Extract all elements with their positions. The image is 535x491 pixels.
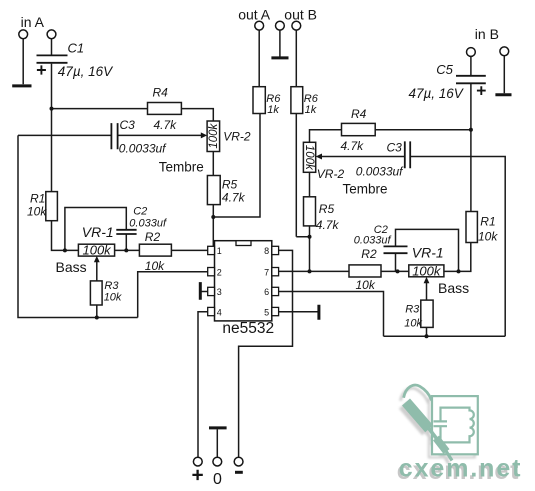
svg-text:Tembre: Tembre <box>159 160 204 175</box>
svg-text:0.0033uf: 0.0033uf <box>119 142 167 156</box>
svg-text:R2: R2 <box>145 230 161 244</box>
svg-text:100k: 100k <box>303 145 315 171</box>
svg-text:2: 2 <box>217 267 222 277</box>
svg-text:R6: R6 <box>266 93 281 105</box>
svg-text:4.7k: 4.7k <box>222 190 246 204</box>
svg-text:1k: 1k <box>305 104 317 116</box>
svg-text:R4: R4 <box>351 107 367 121</box>
svg-text:4.7k: 4.7k <box>316 218 340 232</box>
svg-text:R2: R2 <box>361 247 377 261</box>
svg-text:Bass: Bass <box>438 280 469 296</box>
svg-text:10k: 10k <box>478 229 498 243</box>
svg-text:out B: out B <box>284 7 317 23</box>
svg-text:6: 6 <box>264 287 269 297</box>
svg-text:7: 7 <box>264 267 269 277</box>
svg-text:4.7k: 4.7k <box>341 139 365 153</box>
svg-text:R4: R4 <box>153 85 169 99</box>
svg-text:10k: 10k <box>104 292 122 304</box>
svg-text:100k: 100k <box>82 243 112 258</box>
svg-text:1: 1 <box>217 246 222 256</box>
svg-text:0.033uf: 0.033uf <box>354 234 392 246</box>
svg-text:C5: C5 <box>436 62 453 77</box>
svg-text:100k: 100k <box>412 264 442 279</box>
svg-text:R1: R1 <box>30 191 45 205</box>
svg-text:5: 5 <box>264 307 269 317</box>
svg-text:R6: R6 <box>304 93 319 105</box>
svg-text:in B: in B <box>475 26 499 42</box>
svg-text:VR-1: VR-1 <box>82 224 114 240</box>
svg-text:0.0033uf: 0.0033uf <box>356 164 404 178</box>
svg-text:out A: out A <box>238 7 271 23</box>
svg-text:10k: 10k <box>27 205 47 219</box>
svg-text:Tembre: Tembre <box>343 182 388 197</box>
svg-text:4: 4 <box>217 307 222 317</box>
svg-text:8: 8 <box>264 246 269 256</box>
svg-text:R3: R3 <box>104 280 119 292</box>
svg-text:47µ, 16V: 47µ, 16V <box>58 64 114 79</box>
svg-text:4.7k: 4.7k <box>154 118 178 132</box>
svg-text:cxem.net: cxem.net <box>399 455 523 483</box>
svg-text:10k: 10k <box>404 317 422 329</box>
svg-text:C3: C3 <box>120 118 136 132</box>
svg-text:R3: R3 <box>405 304 420 316</box>
svg-text:1k: 1k <box>267 104 279 116</box>
svg-text:C1: C1 <box>68 41 85 56</box>
svg-text:C3: C3 <box>387 141 403 155</box>
svg-text:100k: 100k <box>208 122 220 148</box>
svg-text:in A: in A <box>21 14 45 30</box>
svg-text:C2: C2 <box>133 205 147 217</box>
svg-text:0.033uf: 0.033uf <box>129 218 167 230</box>
svg-text:VR-2: VR-2 <box>317 167 345 181</box>
svg-text:0: 0 <box>213 471 222 488</box>
svg-text:VR-2: VR-2 <box>223 129 251 143</box>
svg-text:R5: R5 <box>319 202 335 216</box>
svg-text:10k: 10k <box>145 259 165 273</box>
svg-text:10k: 10k <box>356 278 376 292</box>
svg-text:ne5532: ne5532 <box>222 320 274 337</box>
svg-text:3: 3 <box>217 287 222 297</box>
svg-text:47µ, 16V: 47µ, 16V <box>409 86 465 101</box>
svg-text:R1: R1 <box>480 215 495 229</box>
svg-text:Bass: Bass <box>56 259 87 275</box>
svg-text:VR-1: VR-1 <box>412 245 444 261</box>
